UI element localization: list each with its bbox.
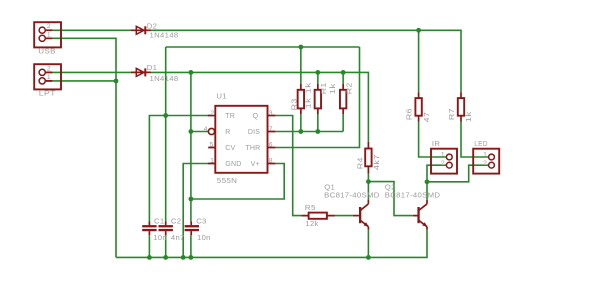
svg-text:1: 1 [47, 74, 51, 81]
capacitor C3 [185, 216, 211, 242]
connector LPT [34, 64, 61, 98]
wire USB pin2 to D2 anode [46, 29, 131, 31]
IC U1 555N [204, 92, 276, 186]
svg-text:LED: LED [474, 139, 488, 148]
capacitor C2 [159, 216, 185, 242]
svg-text:4: 4 [204, 126, 208, 133]
svg-text:7: 7 [269, 126, 273, 133]
wire R4 bottom to junction [367, 174, 369, 182]
junction USB1/LPT1 [114, 79, 119, 84]
wire R5 right to Q1 base [335, 215, 353, 217]
svg-text:Q: Q [253, 113, 259, 120]
wire x=165.7 down through TR to C2 top [165, 47, 167, 222]
svg-text:R6: R6 [405, 108, 414, 120]
wire R3 top [300, 47, 302, 84]
wire LPT pin2 to D1 anode [46, 71, 131, 73]
connector USB [34, 22, 61, 56]
svg-text:BC817-40SMD: BC817-40SMD [324, 191, 380, 200]
wire C3 bottom to ground [190, 235, 192, 257]
svg-text:BC817-40SMD: BC817-40SMD [385, 191, 441, 200]
svg-text:2: 2 [210, 110, 214, 117]
resistor R4 [356, 142, 382, 174]
svg-text:1k: 1k [328, 83, 337, 94]
svg-text:1k: 1k [464, 111, 473, 122]
wire V+ branch down x=191 to C3 top [190, 72, 192, 221]
resistor R1 [303, 82, 328, 114]
junction Q2 collector/IR2/LED2 [425, 179, 430, 184]
junction D1 line branch [189, 70, 194, 75]
wire USB pin1 right then down to ground rail [46, 38, 116, 257]
junction R3 bottom DIS [298, 129, 303, 134]
svg-text:D2: D2 [147, 21, 157, 30]
svg-text:R2: R2 [345, 82, 354, 94]
svg-text:1k: 1k [303, 98, 312, 109]
svg-text:1: 1 [441, 151, 445, 158]
svg-text:1: 1 [210, 158, 214, 165]
svg-text:C1: C1 [154, 216, 164, 225]
resistor R2 [328, 82, 354, 114]
wire Q1 emitter down to ground rail [367, 230, 369, 258]
wire ground rail with right end up to Q2 emitter [116, 230, 427, 258]
svg-text:6: 6 [269, 142, 273, 149]
wire junction up to IR pin2 [427, 165, 446, 182]
junction C1 ground [147, 255, 152, 260]
diode D2 [131, 21, 179, 39]
connector LED [473, 139, 499, 173]
svg-text:LPT: LPT [39, 89, 56, 98]
svg-text:TR: TR [225, 113, 235, 120]
svg-text:R: R [225, 129, 230, 136]
resistor R6 [405, 92, 431, 122]
wire D2 cathode to R6/R7 top rail with corner down to R7 [151, 30, 462, 92]
wire C1 bottom to ground [148, 235, 150, 257]
wire THR pin6 right then up to y=47 line [275, 47, 359, 148]
transistor Q1 [324, 183, 380, 230]
wire R1 bottom [317, 114, 319, 132]
wire Q2 collector up to junction [426, 182, 428, 200]
svg-text:4k7: 4k7 [372, 154, 381, 170]
svg-text:R5: R5 [305, 203, 316, 212]
svg-text:5: 5 [210, 142, 214, 149]
junction V+/C3 node [189, 197, 194, 202]
svg-text:3: 3 [269, 110, 273, 117]
svg-text:USB: USB [38, 47, 56, 56]
connector IR [431, 139, 457, 173]
svg-text:R4: R4 [356, 157, 365, 169]
capacitor C1 [142, 216, 167, 242]
junction R4/Q1 collector/Q2 base [366, 179, 371, 184]
svg-text:U1: U1 [216, 92, 226, 101]
wire V+ pin8 right, down, left to x=191 node [191, 164, 284, 200]
wire R1 top [317, 72, 319, 84]
svg-text:DIS: DIS [248, 129, 260, 136]
svg-text:D1: D1 [147, 63, 157, 72]
svg-text:THR: THR [245, 145, 260, 152]
wire R7 bottom to LED pin1 [461, 122, 488, 158]
wire GND pin1 left then down to ground rail [183, 164, 207, 258]
junction C2 ground [163, 255, 168, 260]
wire LPT pin1 to vertical [46, 80, 116, 82]
svg-text:R1: R1 [319, 82, 328, 94]
junction R6 top rail [416, 28, 421, 33]
wire R pin4 to x=191 line [191, 131, 208, 133]
junction R pin4 [189, 129, 194, 134]
junction R1 top [315, 70, 320, 75]
svg-text:C3: C3 [196, 216, 206, 225]
svg-text:IR: IR [432, 139, 440, 148]
svg-text:555N: 555N [217, 176, 238, 185]
wire R3 bottom [300, 114, 302, 132]
wire Q1 collector up to junction [367, 182, 369, 200]
wire R2 top [342, 72, 344, 84]
wire Q pin3 right, down, to R5 left [275, 116, 301, 216]
svg-text:R7: R7 [447, 108, 456, 120]
svg-text:CV: CV [225, 145, 235, 152]
resistor R7 [447, 92, 473, 122]
svg-text:1N4148: 1N4148 [150, 74, 179, 83]
junction R1 bottom DIS [315, 129, 320, 134]
svg-text:47: 47 [422, 112, 431, 123]
junction C3 ground [189, 255, 194, 260]
transistor Q2 [385, 183, 441, 230]
resistor R3 [289, 84, 312, 114]
wire R2 bottom [342, 114, 344, 132]
svg-text:C2: C2 [171, 216, 181, 225]
wire D1 cathode V+ rail to R4 top [151, 72, 369, 141]
diode D1 [131, 63, 179, 83]
junction R3 top y47 [298, 45, 303, 50]
wire junction right and up to LED pin2 [427, 165, 488, 182]
wire R6 bottom to IR pin1 [419, 122, 446, 158]
wire THR/TR net top line y=47 [166, 46, 360, 48]
wire DIS pin7 to R3/R1/R2 bottoms [275, 131, 343, 133]
svg-text:12k: 12k [305, 219, 318, 228]
svg-text:10n: 10n [197, 233, 211, 242]
svg-text:2: 2 [47, 23, 51, 30]
junction TR/C2 [163, 113, 168, 118]
resistor R5 [301, 203, 335, 228]
junction Q1 emitter ground [366, 255, 371, 260]
junction GND line ground [181, 255, 186, 260]
wire TR pin to C1 top corner [149, 116, 207, 222]
svg-text:R3: R3 [289, 98, 298, 110]
svg-text:1: 1 [483, 151, 487, 158]
junction R2 top [341, 70, 346, 75]
svg-text:GND: GND [225, 161, 241, 168]
svg-text:1: 1 [47, 31, 51, 38]
wire R6 top drop from rail [418, 30, 420, 92]
svg-text:1N4148: 1N4148 [150, 31, 179, 40]
wire C2 bottom to ground [165, 235, 167, 257]
svg-text:8: 8 [269, 158, 273, 165]
svg-text:4n7: 4n7 [171, 233, 185, 242]
svg-text:1k: 1k [303, 83, 312, 94]
svg-text:V+: V+ [251, 161, 260, 168]
svg-text:2: 2 [47, 65, 51, 72]
svg-text:2: 2 [441, 160, 445, 167]
wire junction to Q2 base (Z shape) [368, 182, 412, 216]
svg-text:2: 2 [483, 160, 487, 167]
